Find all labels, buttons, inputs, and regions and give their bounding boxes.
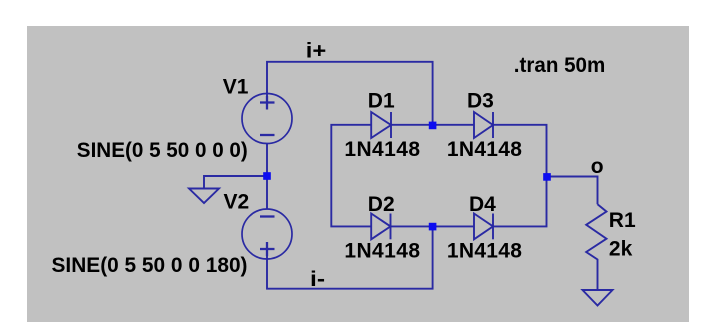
node D1-D3 junction [429,122,437,130]
wire V1 bottom to V2 top through center node [266,144,268,210]
diode D2 [371,214,390,240]
wire center node to ground stub [204,176,267,189]
voltage source V2 [242,209,292,259]
svg-text:1N4148: 1N4148 [344,138,420,161]
wire left bracket joining D1,D2 anodes [331,125,371,227]
svg-text:1N4148: 1N4148 [344,240,420,263]
svg-text:D1: D1 [368,90,395,113]
node output o [543,173,551,181]
voltage source V1 [242,94,292,144]
svg-text:V1: V1 [223,76,249,99]
svg-text:.tran 50m: .tran 50m [514,54,606,77]
wire output node to R1 top [547,177,598,205]
svg-text:SINE(0 5 50 0 0 180): SINE(0 5 50 0 0 180) [52,254,248,277]
svg-text:1N4148: 1N4148 [447,240,522,263]
wire row1 D1 cathode to D3 anode [391,124,474,126]
svg-text:D3: D3 [467,90,494,113]
node D2-D4 junction [429,223,437,231]
svg-text:R1: R1 [609,209,636,232]
svg-text:o: o [591,155,604,178]
wire row2 D2 cathode to D4 anode [391,225,475,227]
svg-text:D4: D4 [469,193,496,216]
svg-text:i-: i- [310,268,325,291]
wire V2 bottom to i- loop up to D2/D4 node [267,226,433,288]
svg-text:1N4148: 1N4148 [447,138,522,161]
resistor R1 [586,204,606,289]
svg-text:D2: D2 [368,193,395,216]
diode D4 [474,214,493,240]
svg-text:i+: i+ [306,39,327,62]
svg-text:2k: 2k [609,238,633,261]
svg-text:SINE(0 5 50 0 0 0): SINE(0 5 50 0 0 0) [77,139,248,162]
node V1-V2 center tap [263,172,271,180]
ground below R1 [583,290,613,306]
diode D3 [474,112,493,138]
svg-text:V2: V2 [224,190,250,213]
wire right bracket joining D3,D4 cathodes [493,125,547,227]
diode D1 [371,112,391,138]
ground center tap [189,189,219,204]
wire i+ top loop from V1 to D1/D3 node [267,62,433,125]
